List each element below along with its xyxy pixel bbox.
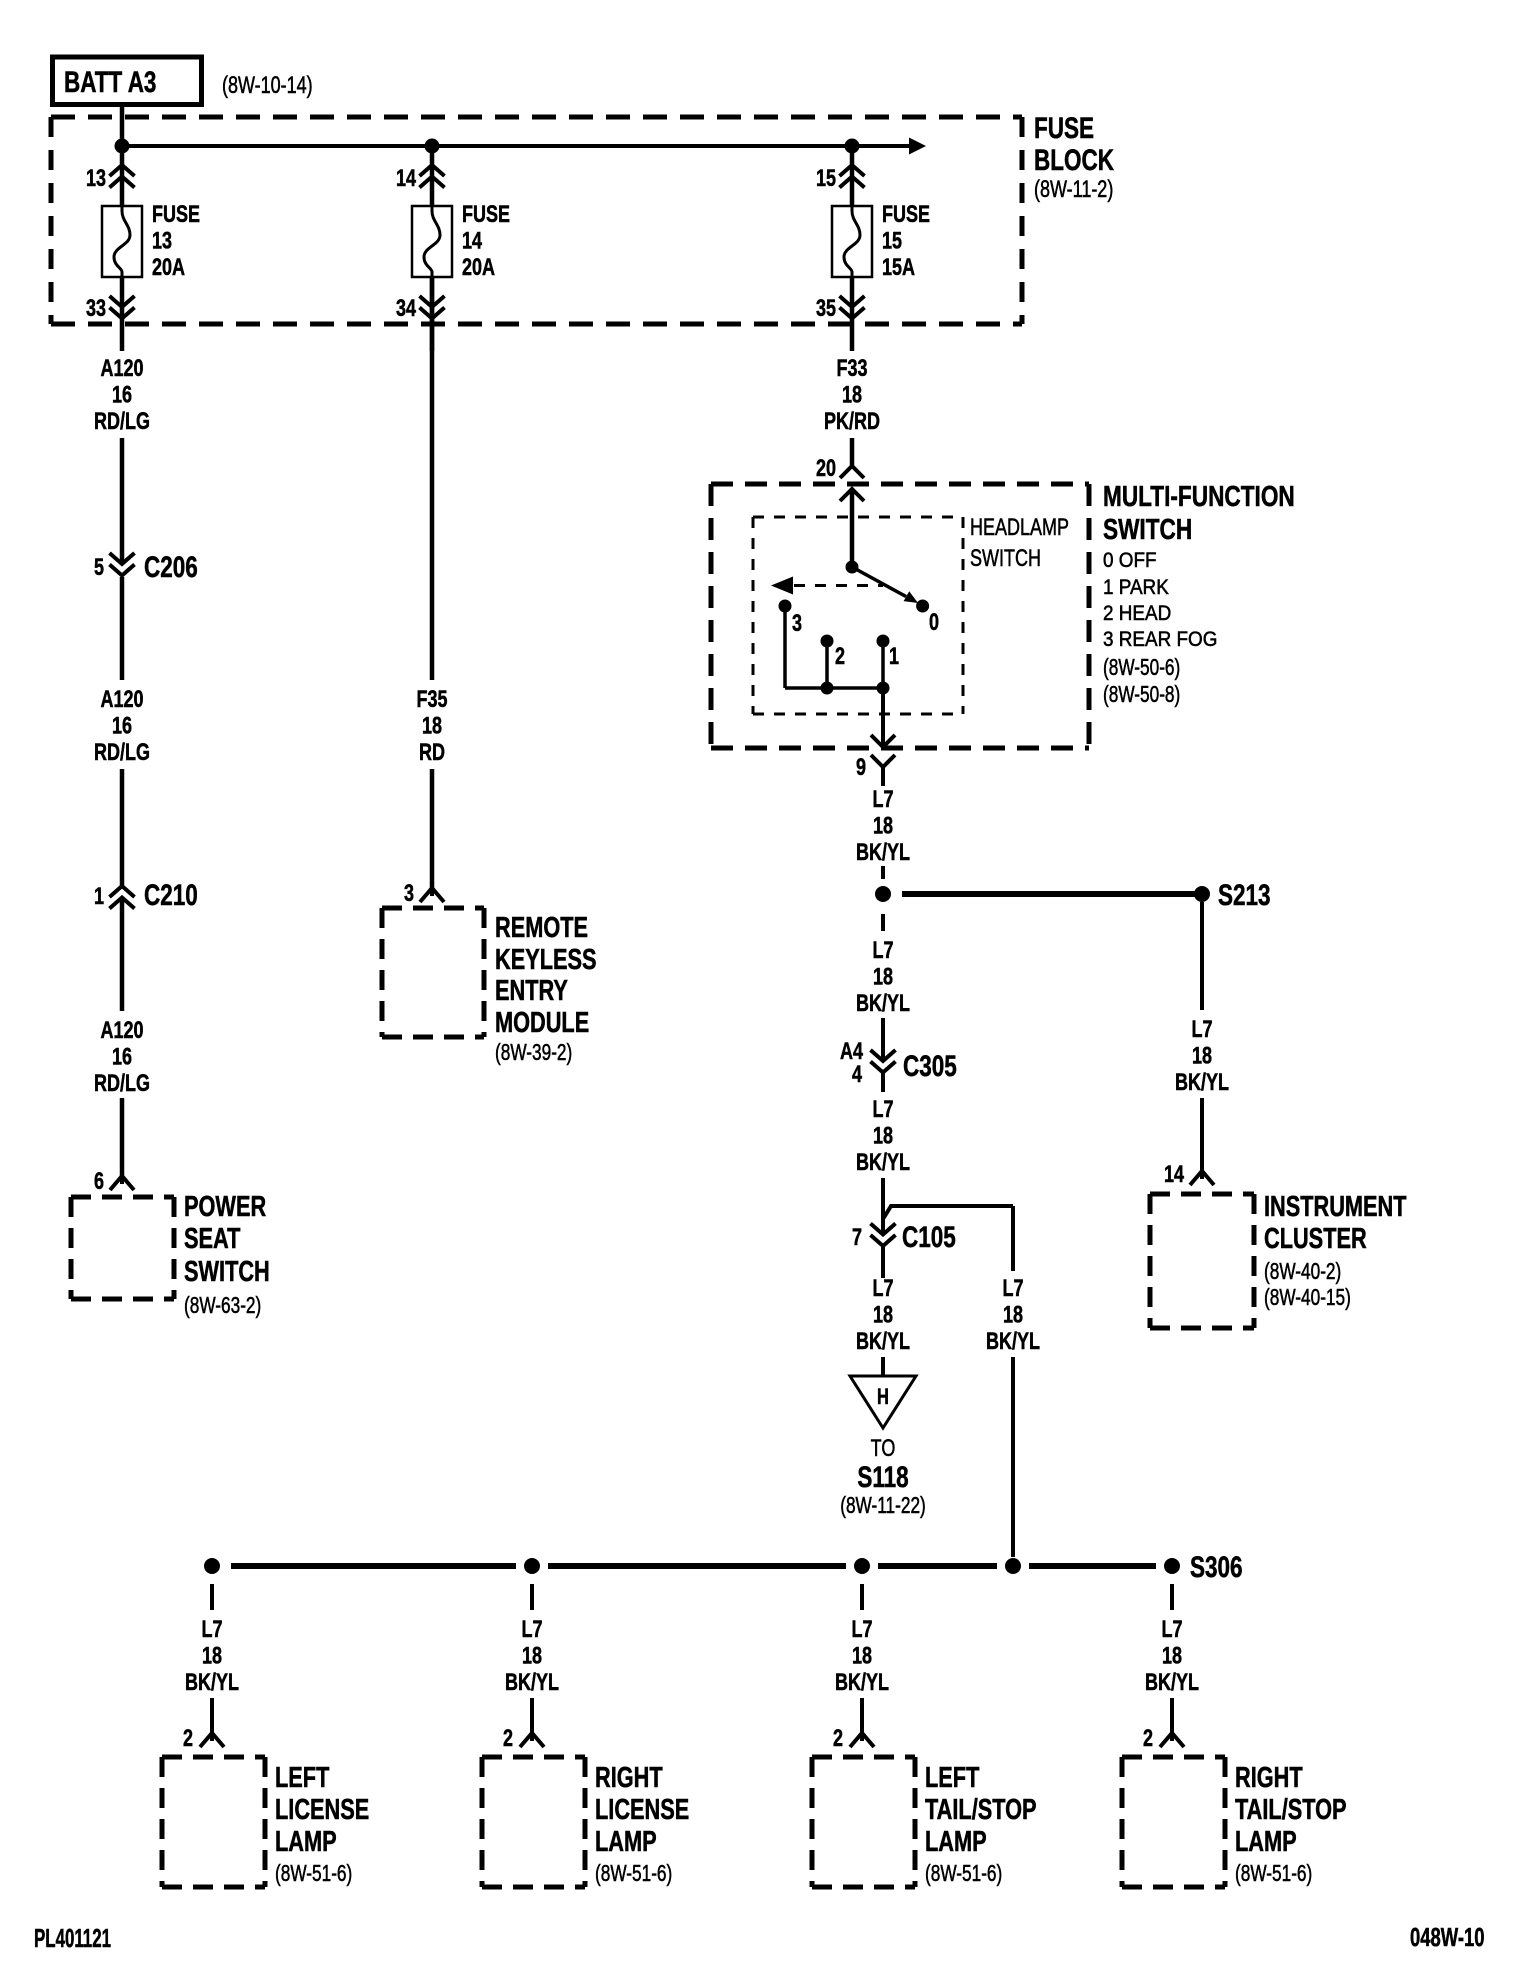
svg-text:2: 2	[833, 1726, 843, 1752]
svg-text:F33: F33	[836, 356, 867, 382]
svg-text:048W-10: 048W-10	[1410, 1923, 1484, 1952]
svg-text:1: 1	[889, 644, 899, 670]
svg-text:16: 16	[112, 713, 132, 739]
svg-text:LEFT: LEFT	[275, 1762, 330, 1794]
svg-text:BK/YL: BK/YL	[856, 1329, 910, 1355]
svg-text:BK/YL: BK/YL	[185, 1670, 239, 1696]
svg-text:S306: S306	[1190, 1550, 1243, 1584]
svg-text:14: 14	[1164, 1162, 1184, 1188]
svg-text:RD/LG: RD/LG	[94, 409, 150, 435]
svg-text:(8W-51-6): (8W-51-6)	[595, 1862, 672, 1887]
svg-text:20A: 20A	[152, 255, 185, 281]
svg-text:1 PARK: 1 PARK	[1103, 576, 1169, 599]
svg-text:(8W-51-6): (8W-51-6)	[1235, 1862, 1312, 1887]
svg-text:RD: RD	[419, 740, 445, 766]
svg-text:HEADLAMP: HEADLAMP	[970, 515, 1069, 541]
svg-text:2: 2	[183, 1726, 193, 1752]
svg-text:L7: L7	[1002, 1276, 1023, 1302]
svg-text:18: 18	[852, 1643, 872, 1669]
svg-text:18: 18	[1192, 1043, 1212, 1069]
svg-text:18: 18	[842, 382, 862, 408]
svg-text:BK/YL: BK/YL	[856, 1150, 910, 1176]
svg-text:3: 3	[792, 611, 802, 637]
svg-text:RD/LG: RD/LG	[94, 740, 150, 766]
svg-text:18: 18	[873, 813, 893, 839]
svg-text:SWITCH: SWITCH	[1103, 512, 1192, 545]
svg-text:2: 2	[835, 644, 845, 670]
svg-text:L7: L7	[872, 787, 893, 813]
svg-text:LAMP: LAMP	[595, 1826, 657, 1858]
svg-text:KEYLESS: KEYLESS	[495, 944, 597, 976]
svg-text:16: 16	[112, 382, 132, 408]
svg-text:BK/YL: BK/YL	[505, 1670, 559, 1696]
svg-text:L7: L7	[1161, 1617, 1182, 1643]
svg-text:FUSE: FUSE	[882, 202, 930, 228]
svg-text:ENTRY: ENTRY	[495, 975, 568, 1007]
svg-text:PK/RD: PK/RD	[824, 409, 880, 435]
svg-text:(8W-51-6): (8W-51-6)	[925, 1862, 1002, 1887]
svg-text:5: 5	[94, 555, 104, 581]
svg-text:BK/YL: BK/YL	[835, 1670, 889, 1696]
svg-text:SWITCH: SWITCH	[970, 546, 1041, 572]
svg-text:18: 18	[1003, 1302, 1023, 1328]
svg-text:4: 4	[852, 1062, 862, 1088]
svg-text:18: 18	[873, 1302, 893, 1328]
svg-text:3 REAR FOG: 3 REAR FOG	[1103, 628, 1217, 651]
svg-text:L7: L7	[521, 1617, 542, 1643]
svg-text:TO: TO	[871, 1436, 896, 1462]
svg-text:SEAT: SEAT	[184, 1223, 241, 1255]
svg-text:BK/YL: BK/YL	[1145, 1670, 1199, 1696]
svg-text:15: 15	[882, 228, 902, 254]
svg-text:(8W-63-2): (8W-63-2)	[184, 1294, 261, 1319]
svg-text:S118: S118	[857, 1460, 908, 1494]
svg-text:(8W-51-6): (8W-51-6)	[275, 1862, 352, 1887]
svg-text:L7: L7	[872, 1097, 893, 1123]
svg-text:LAMP: LAMP	[275, 1826, 337, 1858]
svg-text:7: 7	[852, 1225, 862, 1251]
svg-text:L7: L7	[1191, 1017, 1212, 1043]
svg-text:(8W-10-14): (8W-10-14)	[222, 73, 313, 99]
svg-text:2: 2	[1143, 1726, 1153, 1752]
svg-text:LAMP: LAMP	[925, 1826, 987, 1858]
svg-text:MULTI-FUNCTION: MULTI-FUNCTION	[1103, 479, 1295, 512]
svg-text:C206: C206	[144, 550, 198, 584]
svg-text:0: 0	[929, 610, 939, 636]
svg-text:13: 13	[152, 228, 172, 254]
svg-text:(8W-40-2): (8W-40-2)	[1264, 1260, 1341, 1285]
svg-text:18: 18	[873, 964, 893, 990]
svg-text:BATT A3: BATT A3	[64, 65, 156, 99]
svg-text:BLOCK: BLOCK	[1034, 143, 1114, 177]
svg-text:13: 13	[86, 166, 106, 192]
svg-text:33: 33	[86, 296, 106, 322]
svg-text:L7: L7	[851, 1617, 872, 1643]
svg-text:C210: C210	[144, 878, 198, 912]
svg-text:18: 18	[522, 1643, 542, 1669]
svg-text:6: 6	[94, 1169, 104, 1195]
svg-text:RD/LG: RD/LG	[94, 1071, 150, 1097]
svg-text:3: 3	[404, 881, 414, 907]
svg-text:L7: L7	[872, 938, 893, 964]
svg-text:FUSE: FUSE	[462, 202, 510, 228]
svg-text:(8W-11-2): (8W-11-2)	[1034, 177, 1113, 203]
svg-text:REMOTE: REMOTE	[495, 912, 588, 944]
svg-text:LICENSE: LICENSE	[275, 1794, 369, 1826]
svg-text:C305: C305	[903, 1049, 957, 1083]
svg-text:(8W-11-22): (8W-11-22)	[840, 1494, 926, 1519]
svg-text:15: 15	[816, 166, 836, 192]
svg-text:14: 14	[396, 166, 416, 192]
svg-text:20: 20	[816, 456, 836, 482]
svg-text:A120: A120	[100, 687, 143, 713]
svg-text:(8W-40-15): (8W-40-15)	[1264, 1286, 1351, 1311]
svg-text:14: 14	[462, 228, 482, 254]
svg-text:18: 18	[1162, 1643, 1182, 1669]
svg-text:C105: C105	[902, 1220, 956, 1254]
svg-text:S213: S213	[1218, 878, 1271, 912]
svg-text:20A: 20A	[462, 255, 495, 281]
svg-text:LICENSE: LICENSE	[595, 1794, 689, 1826]
svg-text:1: 1	[94, 884, 104, 910]
svg-text:34: 34	[396, 296, 416, 322]
svg-text:(8W-39-2): (8W-39-2)	[495, 1041, 572, 1066]
svg-text:BK/YL: BK/YL	[856, 991, 910, 1017]
svg-text:H: H	[877, 1385, 889, 1410]
svg-text:(8W-50-6): (8W-50-6)	[1103, 656, 1180, 681]
svg-text:A120: A120	[100, 1018, 143, 1044]
svg-text:2: 2	[503, 1726, 513, 1752]
svg-text:SWITCH: SWITCH	[184, 1256, 270, 1288]
svg-text:LAMP: LAMP	[1235, 1826, 1297, 1858]
svg-text:35: 35	[816, 296, 836, 322]
svg-text:18: 18	[422, 713, 442, 739]
svg-text:18: 18	[873, 1123, 893, 1149]
svg-text:(8W-50-8): (8W-50-8)	[1103, 683, 1180, 708]
svg-text:BK/YL: BK/YL	[856, 840, 910, 866]
svg-text:FUSE: FUSE	[1034, 111, 1094, 145]
svg-text:16: 16	[112, 1044, 132, 1070]
svg-text:FUSE: FUSE	[152, 202, 200, 228]
svg-text:LEFT: LEFT	[925, 1762, 980, 1794]
svg-text:0 OFF: 0 OFF	[1103, 549, 1157, 572]
svg-text:18: 18	[202, 1643, 222, 1669]
svg-text:TAIL/STOP: TAIL/STOP	[925, 1794, 1037, 1826]
svg-text:BK/YL: BK/YL	[986, 1329, 1040, 1355]
svg-text:F35: F35	[416, 687, 447, 713]
svg-text:15A: 15A	[882, 255, 915, 281]
svg-text:INSTRUMENT: INSTRUMENT	[1264, 1191, 1407, 1223]
svg-text:2 HEAD: 2 HEAD	[1103, 602, 1171, 625]
svg-text:RIGHT: RIGHT	[595, 1762, 663, 1794]
svg-text:BK/YL: BK/YL	[1175, 1070, 1229, 1096]
svg-text:CLUSTER: CLUSTER	[1264, 1223, 1367, 1255]
svg-text:TAIL/STOP: TAIL/STOP	[1235, 1794, 1347, 1826]
svg-text:9: 9	[856, 755, 866, 781]
svg-text:RIGHT: RIGHT	[1235, 1762, 1303, 1794]
svg-text:L7: L7	[201, 1617, 222, 1643]
svg-text:A120: A120	[100, 356, 143, 382]
svg-text:POWER: POWER	[184, 1191, 266, 1223]
svg-text:L7: L7	[872, 1276, 893, 1302]
svg-text:MODULE: MODULE	[495, 1007, 589, 1039]
svg-text:PL401121: PL401121	[34, 1923, 111, 1953]
